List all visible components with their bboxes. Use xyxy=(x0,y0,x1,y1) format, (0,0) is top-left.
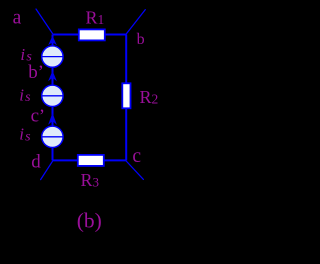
current source 1 arrow xyxy=(48,36,57,46)
resistor R3 body xyxy=(78,155,104,166)
svg-text:b: b xyxy=(137,31,145,48)
resistor R1 body xyxy=(79,29,105,40)
wire bottom (d junction to c junction) xyxy=(53,159,127,161)
svg-text:’: ’ xyxy=(39,106,45,127)
svg-text:(b): (b) xyxy=(77,209,102,233)
wire stub diagonal to node b xyxy=(126,10,145,34)
wire stub diagonal to node a xyxy=(36,9,53,34)
current source 3 circle xyxy=(42,126,63,147)
current source 1 circle xyxy=(42,46,63,67)
svg-text:c: c xyxy=(132,146,141,167)
wire right vertical (b to c) xyxy=(125,35,127,161)
wire top (node a junction to node b junction) xyxy=(53,34,127,36)
wire stub diagonal from node c xyxy=(126,161,143,179)
current source 2 arrow xyxy=(48,71,57,81)
svg-text:’: ’ xyxy=(38,62,44,83)
svg-text:b: b xyxy=(28,62,38,83)
wire left vertical chain xyxy=(52,35,54,161)
svg-text:c: c xyxy=(31,106,39,127)
svg-text:d: d xyxy=(31,151,41,172)
svg-text:a: a xyxy=(13,8,22,29)
wire stub diagonal from node d xyxy=(41,161,53,180)
current source 2 circle xyxy=(42,85,63,106)
resistor R2 body xyxy=(122,83,130,108)
current source 3 arrow xyxy=(48,113,57,125)
